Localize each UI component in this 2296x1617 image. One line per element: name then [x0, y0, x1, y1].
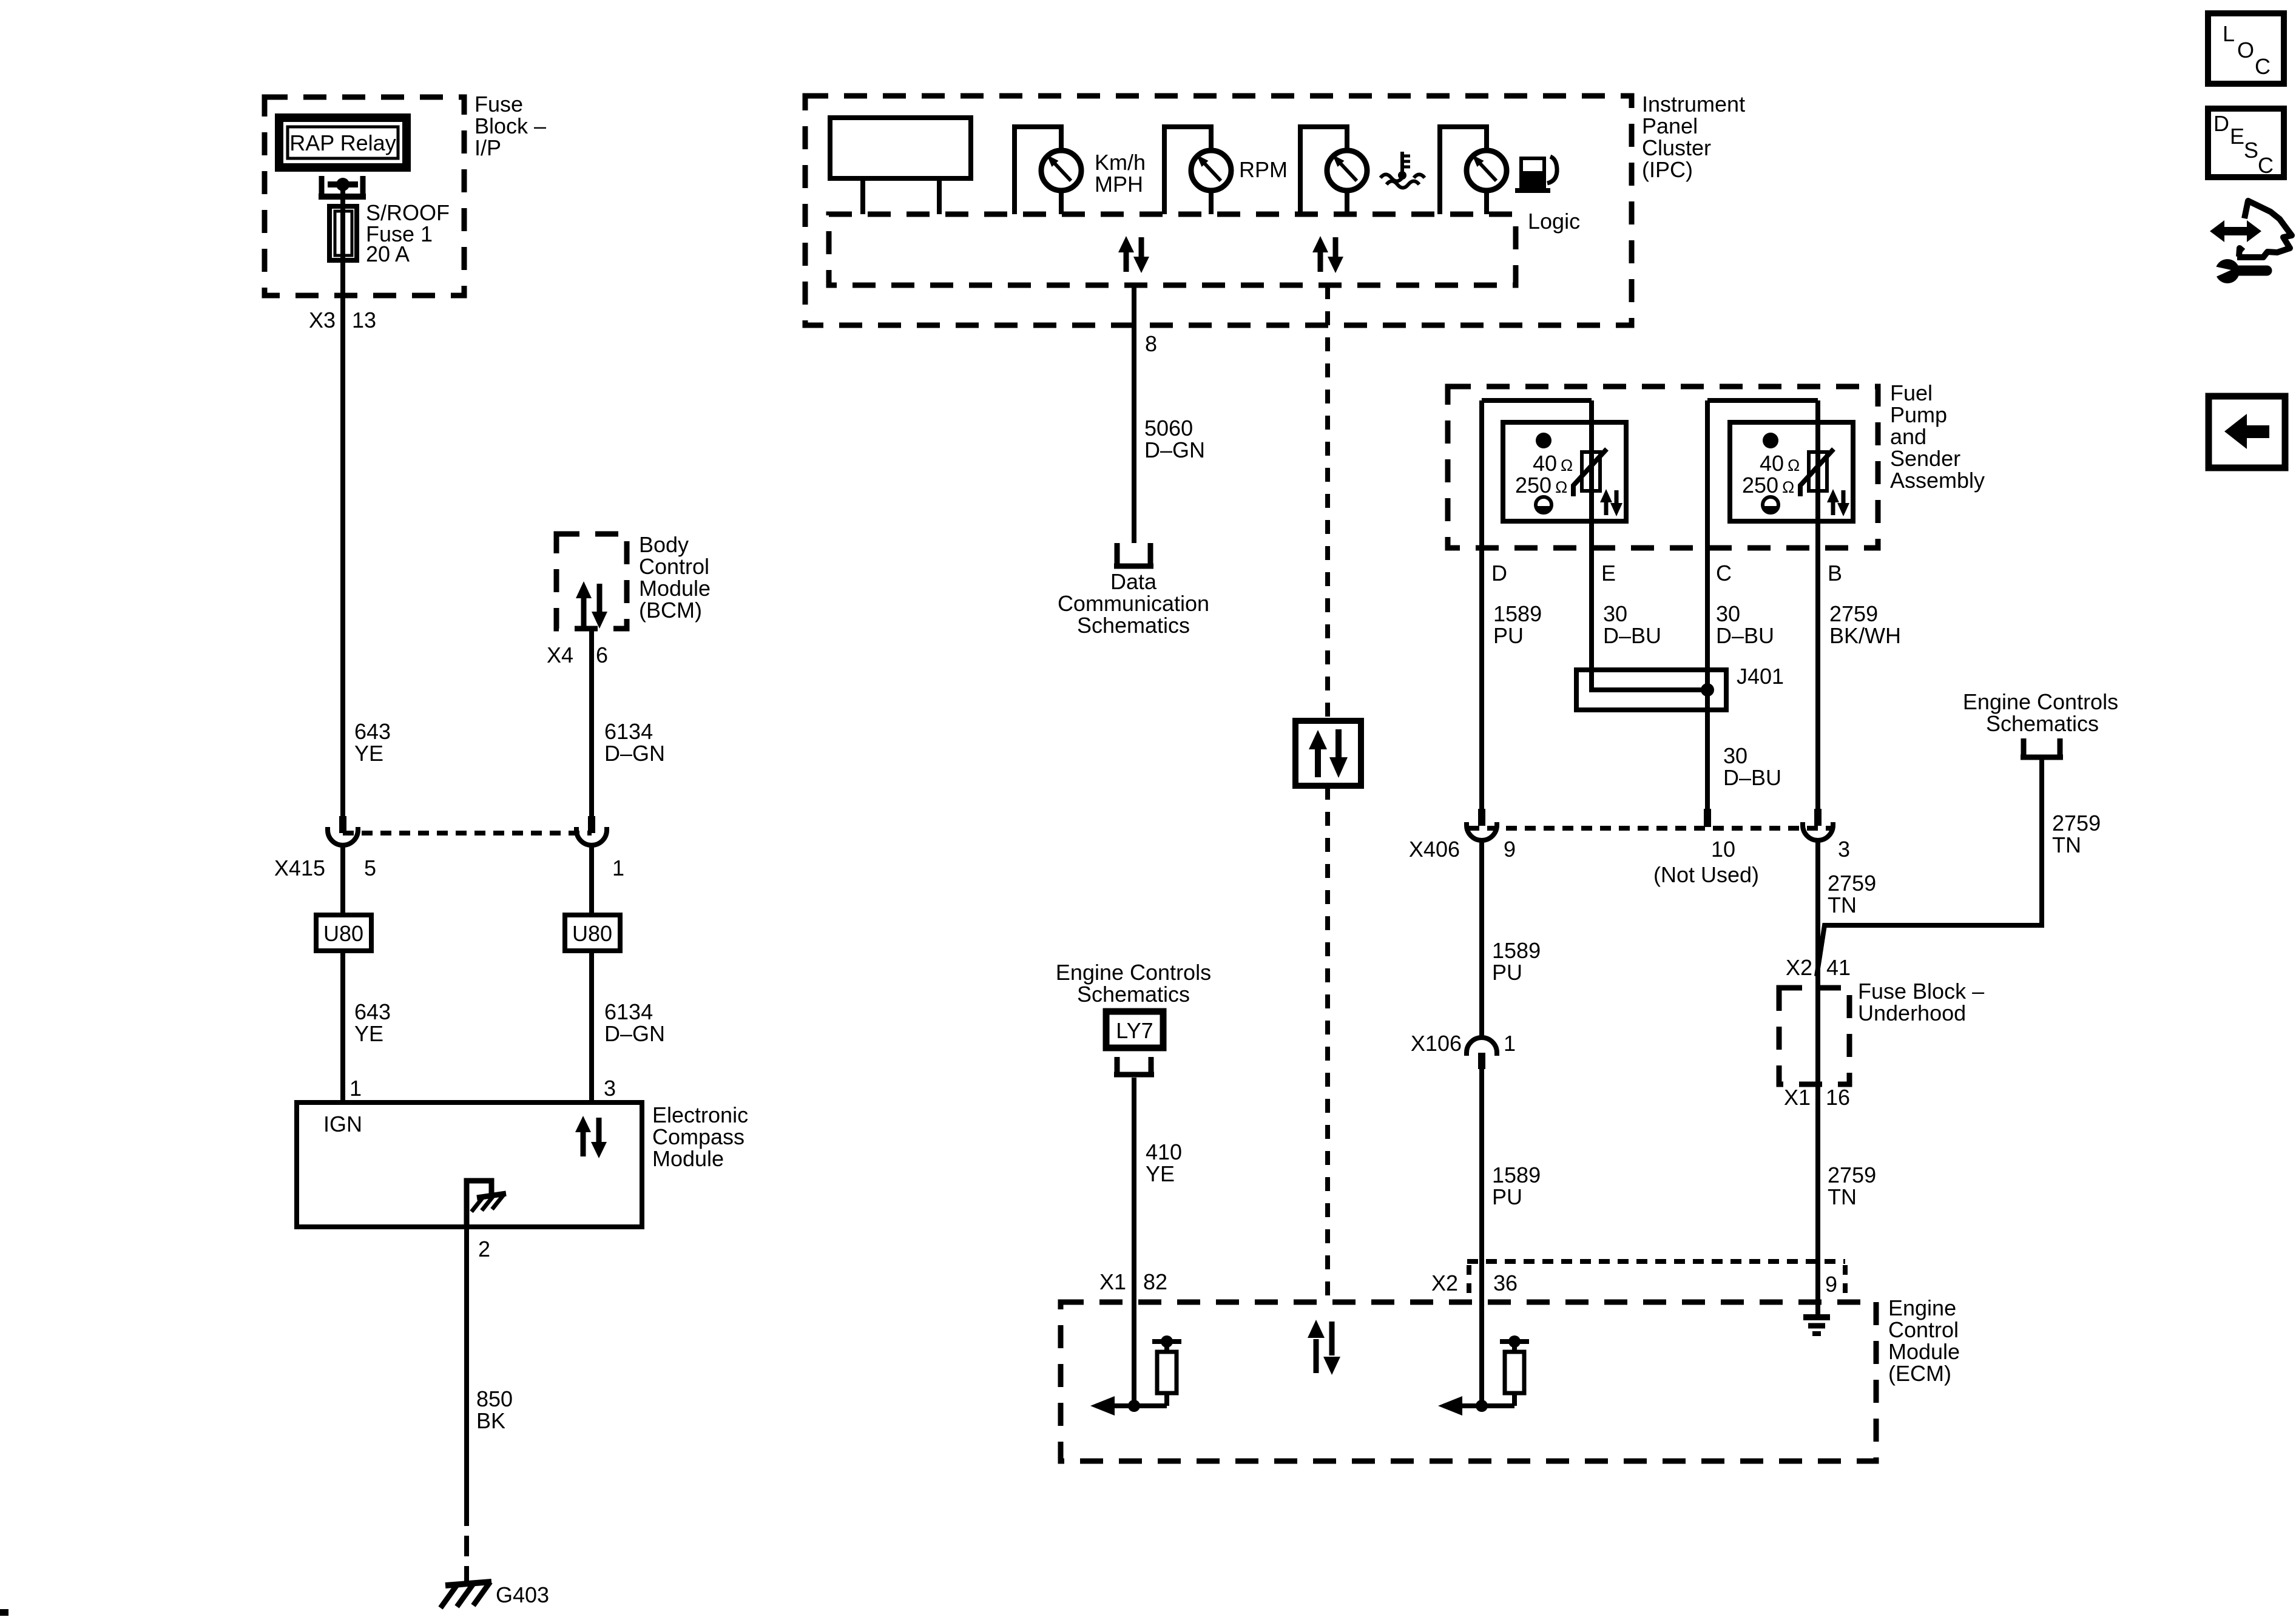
engine code box LY7 — [1106, 1011, 1163, 1048]
left sender variable resistor — [1573, 449, 1607, 496]
right sender full-stop dot — [1763, 433, 1778, 448]
right sender variable resistor — [1800, 449, 1834, 496]
svg-text:16: 16 — [1826, 1085, 1850, 1110]
back arrow button box — [2209, 396, 2285, 468]
svg-text:2759: 2759 — [1828, 871, 1876, 896]
fuse block underhood dashed box — [1779, 988, 1849, 1084]
svg-text:Sender: Sender — [1890, 446, 1960, 471]
gauge: speedometer — [1015, 127, 1081, 214]
svg-text:BK: BK — [476, 1408, 505, 1433]
svg-text:1589: 1589 — [1492, 1163, 1541, 1187]
svg-text:IGN: IGN — [323, 1112, 362, 1136]
connector X106 labels — [1411, 1031, 1516, 1056]
svg-text:X1: X1 — [1784, 1085, 1811, 1110]
svg-text:Instrument: Instrument — [1642, 92, 1745, 116]
svg-text:Block –: Block – — [474, 113, 546, 138]
svg-text:C: C — [2255, 54, 2271, 79]
connector X406 pin 3 terminal and arc — [1803, 809, 1833, 840]
wire 643 YE below X415 to splice U80 — [340, 845, 345, 915]
svg-text:RAP Relay: RAP Relay — [289, 130, 396, 155]
BCM label Body Control Module (BCM) — [639, 532, 711, 623]
connector X415 line — [343, 831, 592, 836]
serial data direction box — [1295, 721, 1361, 786]
svg-text:643: 643 — [354, 719, 391, 744]
svg-text:13: 13 — [352, 308, 376, 333]
svg-text:MPH: MPH — [1095, 172, 1143, 197]
wire 643 YE from relay through fuse to connector X415 pin 5 — [340, 184, 345, 816]
pin label X1 | 82 — [1099, 1269, 1167, 1294]
connector X415 pin 5 terminal — [339, 816, 346, 833]
connector X415 pin 1 arc — [576, 827, 607, 845]
svg-text:Engine Controls: Engine Controls — [1963, 689, 2118, 714]
svg-text:Engine: Engine — [1888, 1295, 1956, 1320]
svg-text:D–GN: D–GN — [604, 1021, 665, 1046]
wire label 1589 PU (below X406) — [1492, 938, 1541, 985]
svg-text:36: 36 — [1493, 1271, 1518, 1295]
svg-text:2759: 2759 — [2052, 811, 2101, 836]
svg-text:G403: G403 — [496, 1582, 549, 1607]
svg-text:X4: X4 — [547, 643, 573, 667]
ECM connector X2 dotted box — [1467, 1261, 1845, 1298]
svg-text:Electronic: Electronic — [652, 1102, 748, 1127]
relay output bar with junction dot — [328, 178, 358, 191]
wire top link pin D to wiper — [1482, 398, 1592, 403]
fuse F1 S/ROOF Fuse 1 20 A body — [329, 206, 357, 260]
svg-text:D–GN: D–GN — [1144, 437, 1205, 462]
gauge: coolant temperature — [1300, 127, 1367, 214]
svg-text:X2: X2 — [1431, 1271, 1458, 1295]
svg-text:1589: 1589 — [1492, 938, 1541, 963]
wire 1589 PU from X406 pin 9 to X106 — [1479, 840, 1484, 1036]
svg-text:643: 643 — [354, 999, 391, 1024]
svg-text:Communication: Communication — [1058, 591, 1209, 616]
svg-text:X406: X406 — [1409, 837, 1460, 862]
svg-text:2759: 2759 — [1829, 601, 1878, 626]
svg-text:D–GN: D–GN — [604, 741, 665, 766]
splice pack J401 box — [1576, 670, 1726, 710]
connector X406 pin 10 terminal (not used) — [1704, 809, 1711, 827]
svg-text:Module: Module — [639, 576, 711, 601]
fuse block underhood label — [1858, 979, 1984, 1025]
svg-text:Module: Module — [1888, 1339, 1960, 1364]
wire 643 YE from U80 to compass module pin 1 — [340, 951, 345, 1102]
serial data dashed wire lower to ECM — [1325, 786, 1330, 1302]
svg-text:X1: X1 — [1099, 1269, 1126, 1294]
right fuel level sender box — [1730, 422, 1853, 521]
svg-text:Pump: Pump — [1890, 402, 1947, 427]
svg-text:C: C — [2258, 153, 2274, 178]
svg-text:I/P: I/P — [474, 135, 501, 160]
junction dot J401 — [1701, 683, 1714, 697]
wire 410 YE from LY7 to ECM X1 pin 82 — [1132, 1078, 1136, 1406]
wire label 2759 BK/WH (pin B) — [1829, 601, 1901, 648]
off-page connector below engine controls schematics — [2021, 738, 2063, 757]
svg-text:Assembly: Assembly — [1890, 468, 1985, 493]
coolant temperature icon — [1380, 152, 1425, 188]
logic dashed box — [829, 214, 1516, 285]
svg-text:U80: U80 — [323, 921, 363, 946]
svg-text:6134: 6134 — [604, 999, 653, 1024]
ground G403 symbol — [441, 1582, 491, 1608]
svg-text:X415: X415 — [274, 856, 325, 880]
gauge: tachometer — [1164, 127, 1231, 214]
engine controls schematics label (left) — [1056, 960, 1211, 1007]
pin letter labels D E C B — [1491, 561, 1842, 586]
wire label 30 D-BU (pin E) — [1603, 601, 1661, 648]
svg-text:10: 10 — [1711, 837, 1735, 862]
svg-text:6134: 6134 — [604, 719, 653, 744]
wire label 2759 TN (above X2 41) — [1828, 871, 1876, 917]
svg-text:O: O — [2237, 38, 2254, 62]
svg-text:Compass: Compass — [652, 1124, 745, 1149]
wire label 5060 D-GN — [1144, 416, 1205, 462]
svg-text:X2: X2 — [1786, 955, 1812, 980]
svg-text:Underhood: Underhood — [1858, 1001, 1966, 1025]
IPC label — [1642, 92, 1745, 182]
svg-text:Fuse Block –: Fuse Block – — [1858, 979, 1984, 1004]
svg-text:1589: 1589 — [1493, 601, 1542, 626]
svg-text:1: 1 — [612, 856, 624, 880]
svg-text:YE: YE — [1146, 1161, 1175, 1186]
wire pin D 1589 PU down to X406 pin 9 — [1479, 400, 1484, 809]
engine controls schematics label (top right) — [1963, 689, 2118, 736]
wire 850 BK from compass module pin 2 — [464, 1227, 469, 1505]
svg-text:Schematics: Schematics — [1077, 613, 1190, 638]
fuel pump and sender assembly dashed box — [1448, 387, 1878, 548]
IPC display block — [830, 118, 971, 214]
page corner mark — [0, 1609, 8, 1616]
svg-text:YE: YE — [354, 1021, 383, 1046]
wire label 30 D-BU (pin C) — [1716, 601, 1774, 648]
wire label 643 YE (lower) — [354, 999, 391, 1046]
svg-text:D: D — [2213, 111, 2229, 136]
pin label X3 | 13 — [309, 308, 376, 333]
svg-text:U80: U80 — [572, 921, 612, 946]
connector X415 pin 5 arc — [328, 827, 358, 845]
fuse block I/P label — [474, 92, 546, 160]
splice U80 (left) — [316, 915, 371, 951]
pin label X1 | 16 — [1784, 1085, 1850, 1110]
serial data dashed wire upper — [1325, 285, 1330, 721]
wire 6134 D-GN from BCM to X415 pin 1 — [589, 629, 594, 816]
svg-text:D–BU: D–BU — [1603, 623, 1661, 648]
BCM serial data arrows — [576, 581, 607, 629]
svg-text:L: L — [2223, 21, 2235, 46]
svg-text:J401: J401 — [1737, 664, 1784, 689]
svg-text:BK/WH: BK/WH — [1829, 623, 1901, 648]
svg-text:B: B — [1828, 561, 1842, 586]
svg-text:30: 30 — [1716, 601, 1740, 626]
logic serial arrows pair 2 — [1312, 236, 1343, 273]
wire pin E through variable resistor down to J401 — [1589, 400, 1594, 690]
dashed wire segment to ground G403 — [464, 1505, 469, 1584]
connector X415 pin 1 terminal — [588, 816, 595, 833]
svg-text:Control: Control — [1888, 1317, 1959, 1342]
svg-text:X106: X106 — [1411, 1031, 1462, 1056]
svg-text:(BCM): (BCM) — [639, 598, 702, 623]
svg-text:D: D — [1491, 561, 1507, 586]
fuel pump and sender assembly label — [1890, 380, 1985, 493]
compass module serial arrows — [575, 1116, 607, 1158]
off-page connector to data communication schematics — [1114, 543, 1153, 566]
svg-text:Control: Control — [639, 554, 709, 579]
svg-text:5: 5 — [364, 856, 376, 880]
svg-text:82: 82 — [1143, 1269, 1167, 1294]
internal ground symbol of compass module — [467, 1181, 506, 1227]
svg-text:Km/h: Km/h — [1095, 150, 1146, 175]
svg-text:8: 8 — [1145, 331, 1157, 356]
svg-text:2: 2 — [478, 1237, 490, 1261]
data communication schematics label — [1058, 569, 1209, 638]
left fuel level sender box — [1503, 422, 1626, 521]
svg-text:Cluster: Cluster — [1642, 135, 1711, 160]
ECM pull-up network at pin 36 — [1438, 1335, 1529, 1416]
fuse block I/P dashed box — [265, 97, 464, 295]
svg-text:X3: X3 — [309, 308, 336, 333]
instrument panel cluster dashed box — [805, 96, 1632, 325]
BCM dashed box — [556, 534, 627, 629]
left sender travel arrows — [1600, 489, 1622, 516]
wire 2759 TN from engine controls schematics — [1817, 760, 2042, 976]
wire label 30 D-BU (below J401) — [1723, 743, 1781, 790]
wire 5060 D-GN from logic pin 8 — [1132, 285, 1136, 543]
svg-text:C: C — [1716, 561, 1732, 586]
gauge label Km/h MPH — [1095, 150, 1146, 197]
wire pin C 30 D-BU down to X406 pin 10 — [1705, 400, 1710, 809]
svg-text:1: 1 — [349, 1076, 362, 1101]
svg-text:LY7: LY7 — [1116, 1018, 1153, 1043]
svg-text:9: 9 — [1504, 837, 1516, 862]
ECM internal ground at pin 9 — [1803, 1317, 1830, 1334]
ECM label — [1888, 1295, 1960, 1386]
connector X406 labels — [1409, 837, 1850, 887]
ECM serial arrows — [1308, 1320, 1340, 1375]
wire label 410 YE — [1146, 1139, 1182, 1186]
wire label 1589 PU (lower) — [1492, 1163, 1541, 1209]
wire 6134 D-GN below X415 through U80 — [589, 845, 594, 915]
svg-text:Schematics: Schematics — [1986, 711, 2099, 736]
svg-text:(Not Used): (Not Used) — [1653, 862, 1759, 887]
wire 6134 D-GN from U80 to compass module pin 3 — [589, 951, 594, 1102]
connector X106 arc and terminal — [1467, 1038, 1497, 1069]
svg-text:YE: YE — [354, 741, 383, 766]
svg-text:PU: PU — [1493, 623, 1524, 648]
svg-text:20 A: 20 A — [366, 241, 410, 266]
svg-text:Body: Body — [639, 532, 689, 557]
connector X406 pin 9 terminal and arc — [1467, 809, 1497, 840]
connector X415 labels — [274, 856, 624, 880]
wire label 1589 PU (pin D) — [1493, 601, 1542, 648]
svg-text:30: 30 — [1603, 601, 1627, 626]
wire 2759 TN from X406 pin 3 down to ECM pin 9 — [1815, 840, 1820, 1317]
svg-text:TN: TN — [2052, 832, 2081, 857]
svg-text:Engine Controls: Engine Controls — [1056, 960, 1211, 985]
svg-text:TN: TN — [1828, 1184, 1857, 1209]
wire label 850 BK — [476, 1386, 513, 1433]
pin label X2 | 41 — [1786, 955, 1851, 980]
svg-text:D–BU: D–BU — [1716, 623, 1774, 648]
fuse label S/ROOF Fuse 1 20 A — [366, 200, 450, 266]
gauge: fuel level — [1440, 127, 1507, 214]
pin label X4 | 6 — [547, 643, 608, 667]
svg-text:Schematics: Schematics — [1077, 982, 1190, 1007]
engine control module dashed box — [1061, 1302, 1876, 1461]
electronic compass module box — [297, 1102, 642, 1227]
svg-text:Fuel: Fuel — [1890, 380, 1933, 405]
svg-text:(ECM): (ECM) — [1888, 1361, 1951, 1386]
wire 1589 PU from X106 to ECM X2 pin 36 — [1479, 1069, 1484, 1406]
fuel pump icon — [1515, 157, 1557, 193]
wire pin B through variable resistor down to X406 pin 3 — [1815, 400, 1820, 809]
left sender full-stop dot — [1536, 433, 1551, 448]
svg-text:41: 41 — [1826, 955, 1851, 980]
wire top link pin C to wiper (right) — [1707, 398, 1818, 403]
svg-text:PU: PU — [1492, 960, 1522, 985]
svg-text:S: S — [2244, 138, 2258, 163]
right sender empty-stop half dot — [1763, 497, 1778, 514]
svg-text:E: E — [1601, 561, 1616, 586]
fuse holder bracket — [319, 176, 366, 197]
svg-text:and: and — [1890, 424, 1926, 449]
DESC button box — [2208, 109, 2284, 178]
svg-text:RPM: RPM — [1239, 157, 1288, 182]
svg-text:TN: TN — [1828, 893, 1857, 917]
svg-text:410: 410 — [1146, 1139, 1182, 1164]
wire label 6134 D-GN (lower) — [604, 999, 665, 1046]
svg-text:Fuse: Fuse — [474, 92, 523, 116]
svg-text:5060: 5060 — [1144, 416, 1193, 441]
svg-text:6: 6 — [596, 643, 608, 667]
svg-text:Logic: Logic — [1528, 209, 1580, 234]
svg-text:Panel: Panel — [1642, 113, 1698, 138]
svg-text:30: 30 — [1723, 743, 1747, 768]
wire C through J401 — [1705, 670, 1710, 710]
svg-text:D–BU: D–BU — [1723, 765, 1781, 790]
diagnostic hand-wrench icon — [2210, 201, 2292, 283]
wire label 2759 TN (below fuse block underhood) — [1828, 1163, 1876, 1209]
wire label 643 YE (upper) — [354, 719, 391, 766]
ECM pull-up network at pin 82 — [1090, 1335, 1181, 1416]
svg-text:Data: Data — [1110, 569, 1157, 594]
pin label X2 | 36 — [1431, 1271, 1518, 1295]
svg-text:Module: Module — [652, 1146, 724, 1171]
LOC button box — [2208, 13, 2284, 84]
svg-text:3: 3 — [604, 1076, 616, 1101]
connector X406 line — [1468, 826, 1832, 831]
right sender travel arrows — [1827, 489, 1849, 516]
svg-text:9: 9 — [1825, 1272, 1837, 1297]
svg-text:E: E — [2230, 124, 2244, 149]
left sender empty-stop half dot — [1536, 497, 1551, 514]
wire E jog inside J401 — [1592, 670, 1707, 690]
compass module label — [652, 1102, 748, 1171]
logic serial arrows pair 1 — [1118, 236, 1149, 273]
relay RAP Relay — [279, 118, 407, 167]
off-page connector below LY7 — [1114, 1057, 1154, 1075]
svg-text:3: 3 — [1838, 837, 1850, 862]
svg-text:(IPC): (IPC) — [1642, 157, 1693, 182]
svg-text:2759: 2759 — [1828, 1163, 1876, 1187]
svg-text:PU: PU — [1492, 1184, 1522, 1209]
wire label 2759 TN (top right) — [2052, 811, 2101, 857]
splice U80 (right) — [565, 915, 620, 951]
svg-text:850: 850 — [476, 1386, 513, 1411]
wire label 6134 D-GN (upper) — [604, 719, 665, 766]
svg-text:1: 1 — [1504, 1031, 1516, 1056]
